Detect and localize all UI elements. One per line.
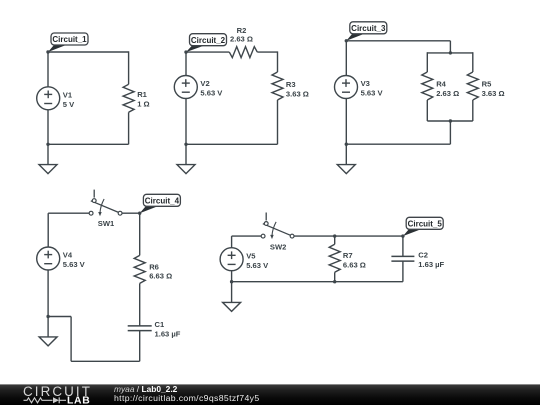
wire top rail to switch SW2 <box>232 235 262 237</box>
resistor R7 <box>329 244 366 272</box>
node junction R7 bottom <box>333 280 336 283</box>
wire V4 bottom lead <box>47 270 49 317</box>
wire switch SW2 to R7 node <box>294 235 335 237</box>
resistor R5 <box>467 72 504 100</box>
voltage source V4 <box>37 247 86 270</box>
wire V5 bottom lead <box>231 271 233 282</box>
resistor R6 <box>134 255 172 283</box>
wire right branch down to R1 <box>128 51 130 84</box>
node junction bottom circuit 3 <box>345 143 348 146</box>
wire V3 bottom lead <box>345 98 347 144</box>
voltage source V3 <box>335 76 384 99</box>
wire V4 top lead up <box>47 213 49 247</box>
svg-text:6.63 Ω: 6.63 Ω <box>149 272 172 281</box>
node junction bottom circuit 2 <box>184 143 187 146</box>
wire R6 bottom to C1 <box>139 283 141 326</box>
node Circuit_1 label callout <box>48 33 88 52</box>
node junction top-left circuit 1 <box>46 50 49 53</box>
wire top rail right circuit 2 <box>257 51 277 53</box>
wire V1 bottom lead <box>47 110 49 145</box>
wire R5 top lead <box>472 52 474 72</box>
resistor R4 <box>422 72 459 100</box>
svg-text:3.63 Ω: 3.63 Ω <box>286 90 309 99</box>
voltage source V5 <box>220 248 269 271</box>
wire right branch down to R3 <box>277 51 279 72</box>
svg-text:C1: C1 <box>155 320 165 329</box>
node junction top-left circuit 3 <box>345 39 348 42</box>
wire C2 bottom lead <box>402 261 404 282</box>
svg-text:V2: V2 <box>200 79 209 88</box>
wire V2 top lead <box>185 52 187 76</box>
wire down from parallel to bottom rail <box>449 121 451 144</box>
svg-text:V3: V3 <box>361 79 370 88</box>
wire to ground circuit 4 <box>47 317 49 337</box>
wire R4 bottom lead <box>426 100 428 121</box>
switch SW1 <box>89 190 122 228</box>
wire to ground circuit 1 <box>47 144 49 164</box>
wire jog to V4 bottom node <box>48 316 71 318</box>
svg-text:1.63 µF: 1.63 µF <box>155 330 181 339</box>
wire to ground circuit 5 <box>231 282 233 303</box>
node junction bottom circuit 4 <box>46 315 49 318</box>
svg-text:6.63 Ω: 6.63 Ω <box>343 260 366 269</box>
svg-text:R5: R5 <box>482 80 492 89</box>
resistor R3 <box>272 72 309 100</box>
node junction parallel top <box>449 51 452 54</box>
node junction top-left circuit 2 <box>184 50 187 53</box>
svg-text:R3: R3 <box>286 80 296 89</box>
svg-text:2.63 Ω: 2.63 Ω <box>436 89 459 98</box>
svg-text:5.63 V: 5.63 V <box>200 89 223 98</box>
wire to ground circuit 2 <box>185 144 187 164</box>
svg-text:Circuit_1: Circuit_1 <box>52 35 87 44</box>
wire bottom rail circuit 4 <box>71 360 140 362</box>
wire R3 bottom to rail <box>277 100 279 144</box>
wire V1 top lead <box>47 52 49 87</box>
node junction C2 top <box>401 234 404 237</box>
svg-text:Circuit_3: Circuit_3 <box>351 24 386 33</box>
wire R4 top lead <box>426 52 428 72</box>
ground circuit 1 <box>39 165 57 174</box>
ground circuit 3 <box>337 165 355 174</box>
wire V5 top lead up <box>231 236 233 248</box>
wire C1 bottom down <box>139 331 141 362</box>
wire switch to node circuit 4 <box>122 212 140 214</box>
wire R5 bottom lead <box>472 100 474 121</box>
wire top rail to switch <box>48 212 89 214</box>
wire C2 top lead <box>402 236 404 256</box>
ground circuit 5 <box>223 302 241 311</box>
svg-text:5 V: 5 V <box>63 100 75 109</box>
node junction bottom circuit 1 <box>46 143 49 146</box>
svg-text:2.63 Ω: 2.63 Ω <box>230 35 253 44</box>
wire parallel bottom rail <box>427 120 473 122</box>
wire bottom rail circuit 5 <box>232 281 403 283</box>
node Circuit_3 label callout <box>346 22 387 41</box>
wire parallel top rail <box>427 52 473 54</box>
wire R1 bottom to rail <box>128 112 130 144</box>
voltage source V2 <box>174 76 223 99</box>
svg-text:V1: V1 <box>63 90 73 99</box>
voltage source V1 <box>37 87 75 110</box>
capacitor C2 <box>391 251 444 269</box>
svg-text:5.63 V: 5.63 V <box>63 260 86 269</box>
wire down to R6 <box>139 213 141 255</box>
switch SW2 <box>261 213 294 252</box>
node junction R7 top <box>333 234 336 237</box>
node Circuit_2 label callout <box>186 34 227 52</box>
wire to ground circuit 3 <box>345 144 347 164</box>
wire top rail circuit 1 <box>48 51 129 53</box>
svg-text:3.63 Ω: 3.63 Ω <box>482 89 505 98</box>
svg-text:http://circuitlab.com/c9qs85tz: http://circuitlab.com/c9qs85tzf74y5 <box>114 393 260 403</box>
svg-text:C2: C2 <box>418 251 428 260</box>
wire up jog circuit 4 <box>70 317 72 362</box>
svg-text:Circuit_4: Circuit_4 <box>145 196 180 205</box>
wire R7 bottom lead <box>334 272 336 281</box>
wire bottom rail circuit 2 <box>186 143 278 145</box>
svg-text:R6: R6 <box>149 262 159 271</box>
svg-text:Circuit_5: Circuit_5 <box>408 219 443 228</box>
node junction bottom circuit 5 <box>230 280 233 283</box>
node junction parallel bottom <box>449 119 452 122</box>
svg-text:V5: V5 <box>246 251 256 260</box>
wire V2 bottom lead <box>185 98 187 144</box>
svg-text:SW1: SW1 <box>98 219 115 228</box>
node junction top-right circuit 4 <box>138 212 141 215</box>
ground circuit 4 <box>39 337 57 346</box>
svg-text:Circuit_2: Circuit_2 <box>191 36 226 45</box>
svg-text:R1: R1 <box>137 90 147 99</box>
svg-text:5.63 V: 5.63 V <box>246 261 269 270</box>
svg-text:LAB: LAB <box>67 396 90 405</box>
logo resistor-diode glyph <box>24 397 67 403</box>
svg-text:V4: V4 <box>63 251 73 260</box>
node Circuit_4 label callout <box>140 194 181 213</box>
wire top rail circuit 3 <box>346 40 450 42</box>
capacitor C1 <box>128 320 181 338</box>
node Circuit_5 label callout <box>403 217 443 236</box>
wire down to R7 <box>334 236 336 244</box>
svg-text:1.63 µF: 1.63 µF <box>418 260 444 269</box>
svg-text:R7: R7 <box>343 251 353 260</box>
wire R7 node to C2 node <box>335 235 403 237</box>
wire bottom rail circuit 1 <box>48 143 129 145</box>
ground circuit 2 <box>177 165 195 174</box>
resistor R1 <box>123 84 150 112</box>
svg-text:5.63 V: 5.63 V <box>361 89 384 98</box>
wire down to parallel top rail <box>449 41 451 53</box>
resistor R2 <box>229 26 257 58</box>
wire top rail left circuit 2 <box>186 51 229 53</box>
svg-text:SW2: SW2 <box>270 242 286 251</box>
svg-text:R4: R4 <box>436 80 446 89</box>
svg-text:1 Ω: 1 Ω <box>137 99 149 108</box>
wire V3 top lead <box>345 41 347 76</box>
wire bottom rail circuit 3 <box>346 143 450 145</box>
CircuitLab logo wordmark <box>23 384 92 405</box>
